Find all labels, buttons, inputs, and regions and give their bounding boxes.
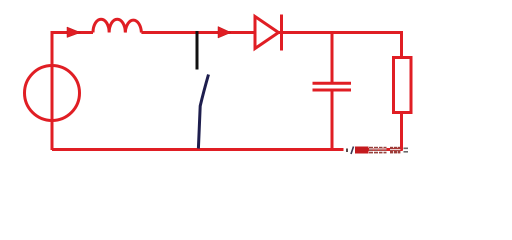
capacitor C1 top lead <box>331 33 334 83</box>
watermark glyph band 1 <box>369 147 387 154</box>
watermark tail glyphs (gray) <box>404 148 409 153</box>
watermark glyph band 2 <box>390 147 400 154</box>
switch S1 blade (open, navy) <box>198 75 208 149</box>
watermark speck 2 (slanted) <box>351 147 354 155</box>
inductor L1 <box>93 19 141 32</box>
watermark : white break in bottom rail <box>344 146 356 155</box>
watermark speck 1 <box>346 149 348 153</box>
voltage source V1 <box>25 66 80 121</box>
diode D1 cathode bar <box>280 15 283 51</box>
arrow (current direction, after source) <box>67 27 81 38</box>
capacitor C1 bottom plate <box>313 89 352 92</box>
wire : resistor bottom lead <box>400 113 403 151</box>
switch S1 top contact (black) <box>196 31 199 70</box>
wire : left branch vertical + top-left segment <box>52 33 93 151</box>
capacitor C1 top plate <box>313 82 352 85</box>
wire : bottom rail <box>52 148 403 151</box>
diode D1 triangle <box>255 17 279 49</box>
watermark glyph band 1 white stripes <box>369 148 387 152</box>
resistor R1 (load) <box>394 58 412 113</box>
wire : inductor to diode <box>141 31 255 34</box>
capacitor C1 bottom lead <box>331 91 334 151</box>
wire : diode to top-right corner, down to resistor <box>279 33 402 58</box>
arrow (current direction, before diode) <box>218 27 231 39</box>
watermark glyph band 2 white stripes <box>390 149 400 150</box>
watermark : dark red block <box>355 147 369 154</box>
